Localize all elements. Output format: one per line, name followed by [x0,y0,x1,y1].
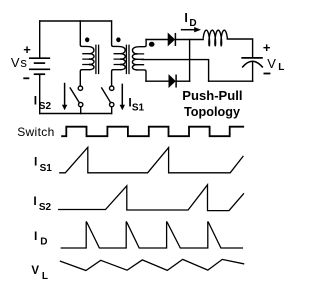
core lines T1 [96,45,99,73]
label - (battery negative) [23,77,29,79]
arrow I_S2 [62,84,67,111]
inductor L1 [203,30,227,46]
svg-text:I: I [34,155,37,169]
wire inductor to capacitor [227,39,252,57]
svg-text:V: V [31,265,39,277]
svg-text:L: L [278,62,284,73]
svg-text:Topology: Topology [184,104,241,119]
svg-text:S2: S2 [39,202,52,213]
waveform IS1 [60,147,243,173]
waveform Switch [62,127,243,137]
primary winding P2 [112,21,126,86]
diode D1 (top) [168,34,175,46]
svg-text:I: I [33,194,36,208]
wire secondary top to diode D1 [146,39,168,41]
label I_S1 waveform [34,155,52,174]
waveform IS2 [59,185,244,211]
label V_L waveform [31,265,48,282]
wire D1 cathode to inductor [175,39,203,41]
svg-text:L: L [42,271,48,282]
label I_S2 waveform [33,194,51,213]
svg-text:S2: S2 [39,101,52,112]
label I_D waveform [34,229,47,247]
svg-text:I: I [34,229,37,243]
svg-text:+: + [263,40,271,55]
label - (output) [264,73,271,75]
waveform VL [60,259,243,270]
switch S2 (left) [70,86,83,114]
svg-text:I: I [34,94,37,108]
label I_S2 [34,94,52,112]
dot secondary polarity [149,42,155,47]
label I_S1 [128,95,144,113]
dot P2 polarity [116,37,120,42]
secondary winding [132,40,146,82]
label Push-Pull Topology [182,88,242,119]
core lines T2 [126,45,129,73]
wire D2 cathode to junction [176,80,190,82]
svg-text:S1: S1 [40,163,53,174]
switch S1 (right) [102,86,114,114]
wire secondary bottom to diode D2 [146,80,169,82]
wire centre tap return [141,60,208,82]
arrow I_D [182,27,201,32]
label I_D [184,11,196,29]
svg-text:Push-Pull: Push-Pull [182,88,242,103]
waveform ID [61,222,242,248]
dot P1 polarity [85,37,89,42]
arrow I_S1 [120,84,125,110]
svg-text:S1: S1 [132,102,145,113]
wire output bottom [209,80,253,82]
battery Vs [30,21,50,114]
label V_L output [267,56,284,73]
capacitor C1 [242,58,262,81]
svg-text:I: I [184,11,187,25]
primary winding P1 [80,21,94,86]
wire top rail [40,20,112,22]
svg-text:Vs: Vs [11,55,28,70]
wire bottom rail [40,113,112,115]
svg-text:D: D [189,18,196,29]
diode D2 (bottom) [169,75,176,87]
svg-text:V: V [267,56,276,71]
svg-text:D: D [40,237,47,248]
node diode junction vertical [189,40,191,82]
svg-text:Switch: Switch [17,125,54,139]
